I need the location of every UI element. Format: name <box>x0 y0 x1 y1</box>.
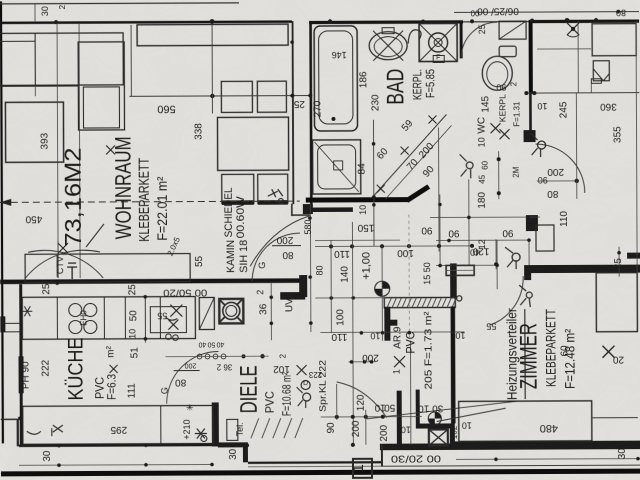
svg-text:51: 51 <box>129 347 140 359</box>
svg-text:245: 245 <box>558 101 569 118</box>
svg-text:m²: m² <box>105 345 116 357</box>
svg-text:230: 230 <box>370 94 381 111</box>
svg-text:2: 2 <box>255 290 265 295</box>
svg-text:270: 270 <box>312 100 323 117</box>
svg-text:1: 1 <box>350 464 367 472</box>
svg-text:200: 200 <box>362 352 379 363</box>
svg-text:60: 60 <box>559 345 570 357</box>
svg-text:25: 25 <box>613 258 624 270</box>
svg-text:80: 80 <box>175 377 187 388</box>
svg-text:140: 140 <box>340 266 351 283</box>
svg-text:KERPL.: KERPL. <box>412 69 424 100</box>
svg-text:10: 10 <box>401 425 411 435</box>
svg-text:KÜCHE: KÜCHE <box>64 338 87 401</box>
svg-text:36 2: 36 2 <box>216 362 232 371</box>
svg-text:145: 145 <box>480 95 491 112</box>
svg-text:10: 10 <box>374 402 386 413</box>
svg-text:200: 200 <box>379 424 390 441</box>
svg-text:PVC: PVC <box>403 331 417 353</box>
svg-text:30: 30 <box>228 448 239 460</box>
svg-text:00 50/20: 00 50/20 <box>163 286 208 297</box>
svg-text:10: 10 <box>537 101 547 111</box>
svg-text:222: 222 <box>41 359 52 376</box>
svg-text:100: 100 <box>335 309 346 326</box>
svg-text:102: 102 <box>450 425 459 439</box>
svg-text:450: 450 <box>25 213 42 224</box>
svg-text:25: 25 <box>127 284 138 296</box>
svg-text:Tel.: Tel. <box>235 422 245 436</box>
svg-text:580: 580 <box>303 220 313 235</box>
svg-text:10: 10 <box>455 330 465 340</box>
svg-text:BAD: BAD <box>382 69 409 105</box>
svg-text:+210: +210 <box>182 419 192 439</box>
svg-text:KAMIN: KAMIN <box>225 240 237 273</box>
svg-text:F: F <box>436 54 440 61</box>
svg-text:DIELE: DIELE <box>236 365 263 413</box>
svg-text:111: 111 <box>127 383 138 399</box>
svg-text:55: 55 <box>157 311 167 321</box>
svg-text:EH0: EH0 <box>79 310 88 326</box>
svg-text:150: 150 <box>357 222 374 233</box>
svg-text:102: 102 <box>273 363 290 374</box>
svg-text:WC: WC <box>476 117 487 134</box>
svg-text:2M: 2M <box>512 166 521 177</box>
svg-text:146: 146 <box>332 50 347 60</box>
svg-text:36: 36 <box>258 303 269 315</box>
svg-text:ZIMMER: ZIMMER <box>515 323 542 389</box>
svg-text:80: 80 <box>315 265 325 275</box>
svg-text:AR.9: AR.9 <box>392 326 403 349</box>
svg-text:PH 90: PH 90 <box>21 361 32 389</box>
svg-text:90: 90 <box>421 225 433 236</box>
svg-text:2: 2 <box>278 353 287 358</box>
svg-text:PVC: PVC <box>263 391 277 413</box>
svg-text:393: 393 <box>40 132 51 149</box>
svg-text:KLEBEPARKETT: KLEBEPARKETT <box>542 309 558 387</box>
svg-text:50: 50 <box>128 310 139 322</box>
svg-text:1: 1 <box>392 369 402 374</box>
svg-text:338: 338 <box>193 123 204 140</box>
svg-text:SIH 18: SIH 18 <box>238 240 250 273</box>
svg-text:84: 84 <box>357 163 368 175</box>
svg-text:06/25/ 00: 06/25/ 00 <box>477 5 519 16</box>
svg-text:110: 110 <box>334 248 350 259</box>
svg-text:560: 560 <box>157 103 175 115</box>
svg-text:D: D <box>303 380 308 387</box>
svg-text:WOHNRAUM: WOHNRAUM <box>111 136 136 239</box>
svg-text:15 50: 15 50 <box>422 262 432 285</box>
svg-text:10: 10 <box>462 420 472 430</box>
svg-text:90: 90 <box>326 422 337 434</box>
svg-text:G: G <box>257 262 267 269</box>
svg-text:SCHIEDEL: SCHIEDEL <box>223 187 235 237</box>
svg-text:25: 25 <box>477 24 487 34</box>
svg-text:40: 40 <box>198 340 206 347</box>
svg-text:25: 25 <box>293 98 305 109</box>
svg-text:186: 186 <box>358 71 369 88</box>
svg-text:12: 12 <box>477 239 487 249</box>
svg-text:10: 10 <box>358 205 368 215</box>
svg-text:10: 10 <box>127 329 137 339</box>
svg-text:25: 25 <box>41 283 52 295</box>
svg-text:90: 90 <box>502 227 514 238</box>
svg-text:295: 295 <box>110 424 127 435</box>
svg-text:F=1.31: F=1.31 <box>512 101 521 127</box>
svg-text:20: 20 <box>613 354 625 365</box>
svg-text:F=10.68 m²: F=10.68 m² <box>280 372 294 416</box>
svg-text:00.60W: 00.60W <box>235 196 247 239</box>
svg-text:2: 2 <box>58 4 67 9</box>
svg-text:120: 120 <box>356 394 367 411</box>
svg-text:200: 200 <box>185 362 197 369</box>
svg-text:50: 50 <box>384 402 396 413</box>
svg-text:205 F=1.73 m²: 205 F=1.73 m² <box>423 311 434 390</box>
svg-text:200: 200 <box>547 166 564 177</box>
svg-text:55: 55 <box>486 321 496 331</box>
svg-text:480: 480 <box>540 422 558 434</box>
svg-text:90: 90 <box>538 175 548 185</box>
svg-text:30 10: 30 10 <box>418 402 444 413</box>
svg-text:2: 2 <box>509 81 518 86</box>
svg-text:G: G <box>160 387 170 394</box>
svg-text:90: 90 <box>496 82 506 92</box>
svg-text:✳: ✳ <box>186 403 194 413</box>
svg-text:200: 200 <box>276 234 293 245</box>
svg-text:110: 110 <box>559 211 570 227</box>
svg-text:UV: UV <box>284 298 295 312</box>
svg-text:55: 55 <box>194 256 205 268</box>
svg-text:00 20/30: 00 20/30 <box>390 452 441 463</box>
svg-text:F=5.85: F=5.85 <box>425 69 437 98</box>
svg-text:F=22.01 m²: F=22.01 m² <box>154 176 170 240</box>
svg-text:10: 10 <box>477 137 487 147</box>
svg-text:30: 30 <box>40 6 50 16</box>
svg-text:360: 360 <box>600 101 617 112</box>
svg-text:+1,00: +1,00 <box>361 252 373 280</box>
svg-text:F=12.48 m²: F=12.48 m² <box>561 329 577 389</box>
svg-text:73,16M2: 73,16M2 <box>60 148 86 247</box>
svg-text:180: 180 <box>477 191 488 208</box>
svg-text:80: 80 <box>547 188 559 199</box>
svg-text:80: 80 <box>282 249 294 260</box>
svg-text:F=6.3: F=6.3 <box>105 374 119 400</box>
svg-text:KLEBEPARKETT: KLEBEPARKETT <box>137 158 153 242</box>
svg-text:110: 110 <box>331 331 347 342</box>
svg-text:90: 90 <box>448 227 460 238</box>
svg-text:50: 50 <box>207 340 215 347</box>
svg-text:30: 30 <box>617 448 628 460</box>
svg-text:Spr.KL 222: Spr.KL 222 <box>318 360 328 412</box>
svg-text:KERPL: KERPL <box>497 94 507 122</box>
svg-text:10: 10 <box>370 331 380 341</box>
svg-text:60: 60 <box>481 160 490 169</box>
svg-text:40: 40 <box>216 340 224 347</box>
svg-text:80: 80 <box>616 8 626 18</box>
svg-text:355: 355 <box>613 126 624 143</box>
svg-text:30: 30 <box>42 450 53 462</box>
svg-text:45: 45 <box>478 174 487 183</box>
svg-text:CTV: CTV <box>55 256 65 274</box>
svg-text:200: 200 <box>351 420 362 437</box>
svg-text:100: 100 <box>397 247 414 258</box>
